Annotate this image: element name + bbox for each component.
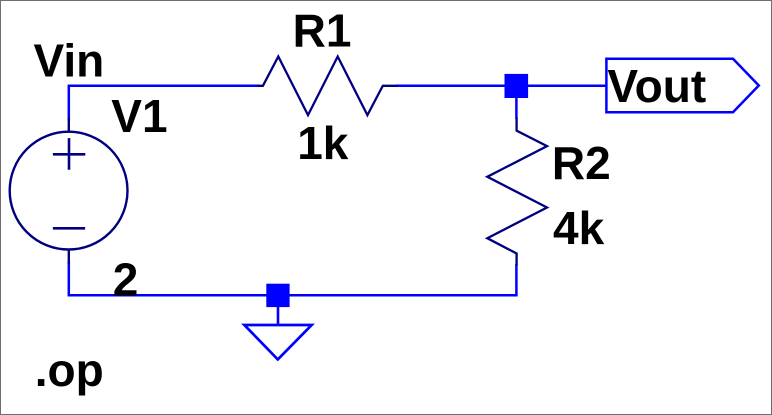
voltage source V1 [10,118,128,264]
svg-text:Vout: Vout [607,60,706,112]
label R2 [552,137,611,189]
value 1k [297,117,349,169]
svg-text:2: 2 [113,254,139,306]
value 4k [553,202,605,254]
label R1 [293,5,352,57]
wire R2 bottom to bottom rail [515,264,518,295]
junction node at Vout (blue square) [505,74,529,98]
svg-text:.op: .op [35,344,104,396]
wire top-left vertical (Vin node to V1 plus pin) [68,86,71,121]
wire junction to Vout port [516,85,606,88]
svg-text:Vin: Vin [34,35,105,87]
wire V1 minus pin to bottom rail [68,261,71,297]
spice directive .op [35,344,104,396]
wire bottom rail horizontal [69,294,518,297]
label Vin [34,35,105,87]
junction node at ground (blue square) [266,284,289,307]
wire top horizontal left (Vin node to R1) [68,85,259,88]
svg-text:R2: R2 [552,137,611,189]
svg-text:R1: R1 [293,5,352,57]
resistor R1 [258,57,398,116]
svg-text:1k: 1k [297,117,349,169]
wire junction down to R2 [515,86,518,119]
svg-text:4k: 4k [553,202,605,254]
resistor R2 [487,118,547,266]
svg-text:V1: V1 [111,90,167,142]
label V1 [111,90,167,142]
label Vout [607,60,706,112]
node number 2 [113,254,139,306]
ground [244,306,311,359]
output port Vout flag [606,59,758,113]
wire top horizontal right (R1 to junction) [396,85,516,88]
